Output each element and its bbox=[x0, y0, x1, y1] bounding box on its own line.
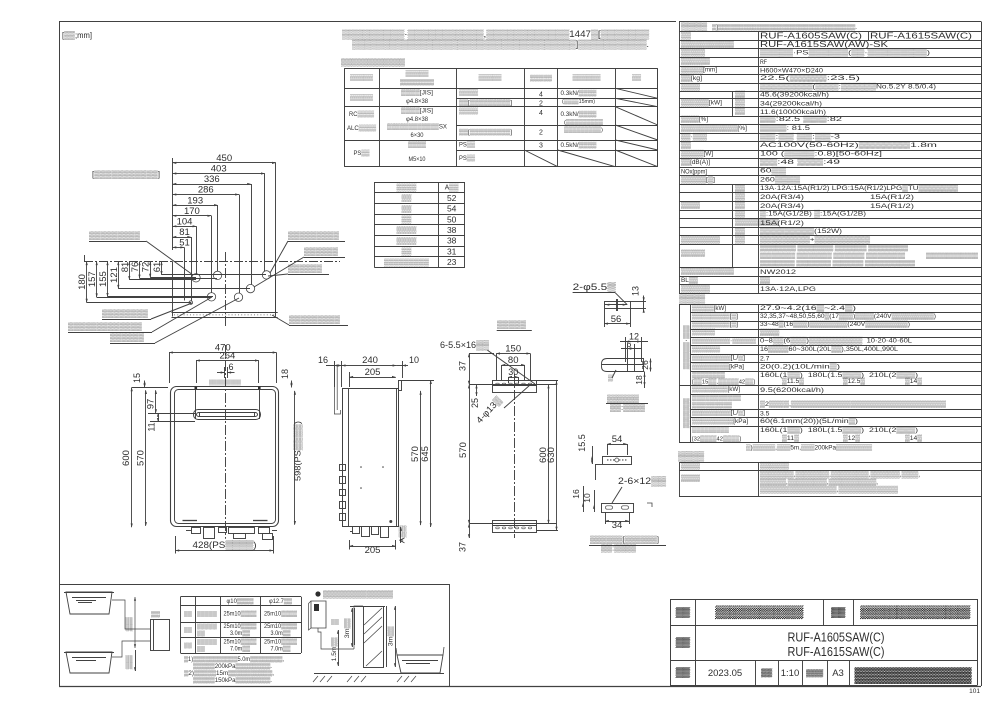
svg-text:3m▒▒: 3m▒▒ bbox=[388, 625, 395, 646]
svg-text:▒▒▒▒: ▒▒▒▒ bbox=[397, 226, 417, 234]
dim 450 bbox=[173, 162, 276, 164]
svg-text:▒▒▒▒▒: ▒▒▒▒▒ bbox=[406, 70, 429, 78]
svg-text:23: 23 bbox=[447, 257, 457, 267]
dim 205 side bottom bbox=[349, 546, 396, 548]
torii diagram: pipe run bbox=[318, 628, 354, 649]
dim 240 side top bbox=[342, 365, 397, 367]
svg-text:16: 16 bbox=[318, 355, 328, 365]
top view centerline bbox=[225, 252, 227, 327]
svg-text:▒▒▒▒▒▒▒▒,▒▒▒▒▒▒▒▒,▒▒▒▒▒▒▒▒▒,▒▒: ▒▒▒▒▒▒▒▒,▒▒▒▒▒▒▒▒,▒▒▒▒▒▒▒▒▒,▒▒▒▒▒▒▒,▒▒▒▒… bbox=[760, 471, 920, 479]
dim 157 vertical bbox=[96, 261, 98, 297]
dim 97 bbox=[155, 390, 157, 413]
front view exhaust slot bbox=[194, 410, 261, 420]
svg-text:▒▒▒▒▒▒: ▒▒▒▒▒▒ bbox=[681, 284, 710, 292]
top view unit body bbox=[172, 261, 174, 316]
svg-text:▒▒▒▒▒▒▒▒[L/▒]: ▒▒▒▒▒▒▒▒[L/▒] bbox=[692, 409, 745, 417]
dim 37 top left bbox=[469, 354, 471, 385]
svg-text:▒▒▒▒▒: ▒▒▒▒▒ bbox=[681, 249, 705, 257]
svg-text:▒▒▒▒: ▒▒▒▒ bbox=[760, 328, 779, 336]
svg-text:54: 54 bbox=[612, 434, 623, 445]
svg-text:▒▒▒▒▒▒▒▒[L/▒]: ▒▒▒▒▒▒▒▒[L/▒] bbox=[692, 354, 745, 362]
svg-text:[▒▒15▒▒,▒▒▒▒▒42▒▒]: [▒▒15▒▒,▒▒▒▒▒42▒▒] bbox=[692, 378, 755, 385]
svg-text:▒▒▒▒▒▒▒▒[kPa]: ▒▒▒▒▒▒▒▒[kPa] bbox=[692, 363, 744, 371]
svg-text:▒▒▒▒[JIS]: ▒▒▒▒[JIS] bbox=[401, 106, 433, 114]
svg-text:▒▒▒▒[%]: ▒▒▒▒[%] bbox=[681, 115, 708, 123]
svg-text:▒▒▒▒▒▒: ▒▒▒▒▒▒ bbox=[110, 333, 144, 342]
svg-text:▒▒▒▒▒200kPa▒▒▒▒▒▒▒▒.: ▒▒▒▒▒200kPa▒▒▒▒▒▒▒▒. bbox=[193, 663, 272, 670]
svg-text:▒▒: ▒▒ bbox=[735, 107, 745, 115]
dim 155 vertical bbox=[107, 261, 109, 297]
dim 121 vertical bbox=[118, 261, 120, 288]
top view unit outline (wall reference dash-dot line) bbox=[84, 261, 340, 263]
side view top bracket plate bbox=[398, 380, 432, 382]
svg-text:▒▒:▒▒ ▒▒:▒▒-3: ▒▒:▒▒ ▒▒:▒▒-3 bbox=[760, 133, 840, 141]
svg-text:2.7: 2.7 bbox=[760, 356, 770, 363]
svg-text:160L(1▒▒) 180L(1.5▒▒▒) 210L(: 160L(1▒▒) 180L(1.5▒▒▒) 210L(2▒▒▒) bbox=[760, 426, 918, 434]
svg-text:11: 11 bbox=[147, 422, 157, 431]
svg-text:27.9~4.2(16▒~2.4▒): 27.9~4.2(16▒~2.4▒) bbox=[760, 304, 856, 312]
dim 18 right small bbox=[291, 381, 293, 388]
svg-text:A▒▒: A▒▒ bbox=[445, 183, 459, 191]
dim 80 bbox=[502, 365, 525, 367]
svg-text:▒▒▒▒▒: ▒▒▒▒▒ bbox=[350, 74, 373, 82]
svg-text:▒▒▒▒: ▒▒▒▒ bbox=[459, 89, 478, 97]
front view body bbox=[171, 387, 279, 527]
svg-text:15A(R1/2): 15A(R1/2) bbox=[870, 203, 914, 210]
svg-text:▒▒▒▒▒[W]: ▒▒▒▒▒[W] bbox=[681, 150, 713, 158]
bracket-mid dim 54 bbox=[607, 444, 627, 446]
dim 600 bbox=[131, 388, 133, 528]
svg-text:▒▒▒▒▒: ▒▒▒▒▒ bbox=[197, 610, 217, 617]
svg-text:6: 6 bbox=[228, 362, 233, 372]
svg-text:598(PS▒▒▒▒): 598(PS▒▒▒▒) bbox=[293, 421, 303, 481]
svg-text:▒▒[▒▒▒▒▒▒▒▒▒]: ▒▒[▒▒▒▒▒▒▒▒▒] bbox=[459, 128, 512, 136]
svg-text:▒▒▒▒▒▒▒▒▒: ▒▒▒▒▒▒▒▒▒ bbox=[384, 258, 429, 266]
svg-text:60▒▒: 60▒▒ bbox=[760, 167, 786, 175]
svg-text:6×30: 6×30 bbox=[411, 132, 425, 139]
svg-text:▒▒▒▒▒: ▒▒▒▒▒ bbox=[530, 74, 553, 82]
svg-text:45.6(39200kcal/h): 45.6(39200kcal/h) bbox=[760, 92, 829, 99]
svg-text:▒▒: ▒▒ bbox=[735, 227, 745, 235]
torii diagram: bathtub bbox=[397, 655, 443, 673]
bracket-upper dim 26 bbox=[650, 359, 652, 372]
parts table grid bbox=[679, 462, 981, 464]
svg-text:▒▒▒▒▒▒: ▒▒▒▒▒▒ bbox=[288, 264, 322, 273]
svg-text:▒▒: ▒▒ bbox=[151, 611, 161, 618]
svg-text:570: 570 bbox=[135, 450, 146, 466]
dim 336 bbox=[173, 184, 252, 186]
svg-text:38: 38 bbox=[447, 236, 457, 246]
svg-text:▒▒▒▒: ▒▒▒▒ bbox=[681, 201, 700, 209]
svg-text:18: 18 bbox=[280, 369, 290, 379]
mounting hole top bracket strip bbox=[493, 381, 537, 393]
dim 72 vertical bbox=[150, 261, 152, 277]
svg-text:▒▒▒▒▒▒▒▒▒: ▒▒▒▒▒▒▒▒▒ bbox=[288, 231, 339, 240]
bracket-low body bbox=[602, 504, 634, 513]
svg-text:37: 37 bbox=[458, 542, 468, 552]
torii diagram: dim 3m inner-left bbox=[354, 608, 356, 645]
dim 150 bbox=[496, 353, 530, 355]
svg-text:▒1)▒▒▒▒▒▒▒▒▒▒▒5.0m▒▒▒▒▒▒▒▒,: ▒1)▒▒▒▒▒▒▒▒▒▒▒5.0m▒▒▒▒▒▒▒▒, bbox=[184, 656, 284, 663]
svg-text:▒▒▒▒▒▒▒▒[kW]: ▒▒▒▒▒▒▒▒[kW] bbox=[692, 385, 740, 393]
svg-text:26: 26 bbox=[640, 360, 650, 370]
dim 10 side top bbox=[396, 365, 408, 367]
svg-text:61: 61 bbox=[152, 262, 163, 273]
dim 570 left bbox=[469, 385, 471, 524]
dim 630 right bbox=[556, 381, 558, 531]
svg-text:▒▒: ▒▒ bbox=[735, 99, 745, 107]
svg-text:▒▒: ▒▒ bbox=[402, 205, 412, 213]
svg-text:18: 18 bbox=[634, 375, 644, 385]
svg-text:0.3kN/▒▒▒▒: 0.3kN/▒▒▒▒ bbox=[561, 89, 598, 97]
svg-text:▒2)▒▒▒▒▒15m▒▒▒▒▒▒▒▒▒▒,: ▒2)▒▒▒▒▒15m▒▒▒▒▒▒▒▒▒▒, bbox=[184, 670, 274, 677]
svg-text:▒▒·▒▒▒▒: ▒▒·▒▒▒▒ bbox=[683, 325, 691, 370]
torii diagram: dim 1.5m bbox=[338, 630, 340, 666]
svg-text:2023.05: 2023.05 bbox=[708, 668, 742, 679]
svg-text:31: 31 bbox=[447, 246, 457, 256]
svg-text:▒▒▒▒: 81.5: ▒▒▒▒: 81.5 bbox=[760, 124, 810, 132]
dim 205 side top bbox=[349, 377, 396, 379]
svg-text:▒▒▒▒▒▒▒▒▒▒▒▒▒▒▒: ▒▒▒▒▒▒▒▒▒▒▒▒▒▒▒ bbox=[926, 252, 979, 259]
svg-text:▒▒▒▒▒▒▒▒▒▒▒▒[%]: ▒▒▒▒▒▒▒▒▒▒▒▒[%] bbox=[681, 124, 747, 132]
side view small dots bbox=[360, 466, 362, 468]
piping diagram: label down bbox=[135, 650, 137, 671]
svg-text:▒▒▒▒▒▒: ▒▒▒▒▒▒ bbox=[573, 74, 601, 82]
svg-text:▒▒: ▒▒ bbox=[681, 141, 691, 149]
connection size table bbox=[375, 182, 465, 184]
svg-text:▒▒:82.5 ▒▒▒:82: ▒▒:82.5 ▒▒▒:82 bbox=[760, 115, 842, 123]
svg-text:240: 240 bbox=[362, 355, 378, 366]
svg-text:101: 101 bbox=[969, 688, 980, 695]
svg-text:▒▒[kg]: ▒▒[kg] bbox=[681, 74, 702, 82]
svg-text:M5×10: M5×10 bbox=[409, 156, 426, 163]
dim 30 bbox=[508, 377, 518, 379]
mounting hole slot center lines bbox=[469, 384, 557, 386]
svg-text:▒▒▒▒▒▒▒▒▒▒▒: ▒▒▒▒▒▒▒▒▒▒▒ bbox=[692, 394, 742, 402]
svg-text:φ4.8×38: φ4.8×38 bbox=[406, 98, 429, 105]
svg-text:▒▒: ▒▒ bbox=[760, 276, 770, 284]
svg-text:ALC▒▒▒▒: ALC▒▒▒▒ bbox=[347, 124, 376, 132]
dim 470 bbox=[169, 352, 277, 354]
bottom section divider bbox=[59, 584, 449, 586]
left dim connector lines bbox=[87, 302, 191, 304]
svg-text:[▒▒▒▒▒▒▒▒▒▒▒]: [▒▒▒▒▒▒▒▒▒▒▒] bbox=[92, 170, 160, 179]
svg-text:▒▒: ▒▒ bbox=[184, 642, 192, 649]
svg-text:286: 286 bbox=[198, 185, 214, 196]
svg-text:▒▒▒▒▒▒▒▒▒: ▒▒▒▒▒▒▒▒▒ bbox=[89, 231, 140, 240]
bracket-upper dim 6 bbox=[621, 348, 641, 350]
svg-text:▒▒▒▒▒▒▒▒▒▒▒▒▒: ▒▒▒▒▒▒▒▒▒▒▒▒▒ bbox=[323, 590, 394, 599]
svg-text:AC100V(50-60Hz)▒▒▒▒▒▒1.8m: AC100V(50-60Hz)▒▒▒▒▒▒1.8m bbox=[760, 141, 938, 149]
svg-text:▒▒:▒▒▒▒: ▒▒:▒▒▒▒ bbox=[610, 403, 646, 412]
svg-text:25m10▒▒▒▒: 25m10▒▒▒▒ bbox=[264, 610, 298, 617]
svg-text:▒▒▒▒▒▒▒▒▒▒▒▒▒: ▒▒▒▒▒▒▒▒▒▒▒▒▒ bbox=[68, 322, 142, 331]
svg-text:▒11.5▒: ▒11.5▒ bbox=[782, 377, 804, 385]
dim 193 bbox=[173, 205, 218, 207]
svg-text:121: 121 bbox=[109, 267, 120, 283]
svg-text:100 (▒▒▒▒:0.8)[50-60Hz]: 100 (▒▒▒▒:0.8)[50-60Hz] bbox=[760, 150, 882, 158]
svg-text:600: 600 bbox=[121, 450, 132, 466]
svg-text:13A·12A,LPG: 13A·12A,LPG bbox=[760, 286, 816, 293]
svg-text:▒▒▒▒▒▒▒▒·▒▒▒▒▒: ▒▒▒▒▒▒▒▒·▒▒▒▒▒ bbox=[692, 336, 756, 344]
svg-text:7.0m▒▒: 7.0m▒▒ bbox=[271, 645, 292, 652]
svg-text:▒▒▒▒▒▒▒▒▒ ▒▒▒▒▒▒▒▒▒ ▒▒▒▒▒▒▒▒ ▒: ▒▒▒▒▒▒▒▒▒ ▒▒▒▒▒▒▒▒▒ ▒▒▒▒▒▒▒▒ ▒▒▒▒▒▒▒▒▒▒ bbox=[760, 245, 909, 252]
svg-text:1:10: 1:10 bbox=[781, 668, 800, 679]
svg-text:▒▒▒▒▒▒: ▒▒▒▒▒▒ bbox=[681, 57, 710, 65]
svg-text:▒▒▒▒▒▒▒▒▒+▒▒▒▒▒▒▒▒▒▒: ▒▒▒▒▒▒▒▒▒+▒▒▒▒▒▒▒▒▒▒ bbox=[760, 235, 870, 243]
svg-text:▒▒▒▒▒: ▒▒▒▒▒ bbox=[692, 328, 715, 336]
front view top recess panel bbox=[195, 386, 197, 419]
svg-text:428(PS▒▒▒▒): 428(PS▒▒▒▒) bbox=[193, 540, 257, 551]
svg-text:▒▒: ▒▒ bbox=[735, 201, 745, 209]
dim A side bottom bbox=[400, 527, 402, 543]
svg-text:▒▒▒▒▒▒▒▒: ▒▒▒▒▒▒▒▒ bbox=[681, 235, 720, 243]
front view centerline bbox=[225, 345, 227, 539]
svg-text:▒:15A(G1/2B) ▒:15A(G1/2B): ▒:15A(G1/2B) ▒:15A(G1/2B) bbox=[760, 210, 866, 218]
svg-text:(▒▒▒▒15mm): (▒▒▒▒15mm) bbox=[562, 98, 595, 105]
svg-text:38: 38 bbox=[447, 225, 457, 235]
dim 76 vertical bbox=[139, 261, 141, 278]
svg-text:▒▒▒▒▒150kPa▒▒▒▒▒▒▒▒.: ▒▒▒▒▒150kPa▒▒▒▒▒▒▒▒. bbox=[193, 677, 272, 684]
svg-text:BL▒▒: BL▒▒ bbox=[681, 276, 698, 284]
dim 570 bbox=[145, 390, 147, 526]
svg-text:▒▒: ▒▒ bbox=[331, 618, 339, 625]
svg-text:▒▒▒▒▒▒[kW]: ▒▒▒▒▒▒[kW] bbox=[681, 99, 722, 107]
svg-text:3.5: 3.5 bbox=[760, 410, 770, 417]
svg-text:φ10▒▒▒▒: φ10▒▒▒▒ bbox=[227, 598, 255, 605]
svg-text:▒▒▒▒▒: ▒▒▒▒▒ bbox=[350, 94, 373, 102]
svg-text:▒▒▒▒▒: ▒▒▒▒▒ bbox=[683, 398, 691, 429]
svg-text:▒▒▒▒▒▒▒▒[▒]: ▒▒▒▒▒▒▒▒[▒] bbox=[692, 312, 738, 320]
bracket-mid body bbox=[603, 457, 632, 465]
svg-text:▒▒▒▒▒▒: ▒▒▒▒▒▒ bbox=[304, 247, 338, 256]
dim 81 vertical bbox=[129, 261, 131, 280]
svg-text:2: 2 bbox=[539, 130, 543, 137]
dim 170 bbox=[173, 215, 212, 217]
svg-text:▒▒: ▒▒ bbox=[681, 31, 691, 39]
front view feet bbox=[183, 520, 198, 522]
svg-text:▒▒▒▒▒: ▒▒▒▒▒ bbox=[197, 623, 217, 630]
svg-text:▒▒:48 ▒▒▒:49: ▒▒:48 ▒▒▒:49 bbox=[760, 158, 840, 166]
wall bracket small strip bbox=[605, 302, 631, 309]
svg-text:264: 264 bbox=[219, 351, 235, 362]
drawing sheet frame bbox=[59, 21, 676, 23]
svg-text:13: 13 bbox=[631, 286, 641, 296]
title block frame bbox=[670, 599, 977, 601]
svg-text:▒▒▒▒: ▒▒▒▒ bbox=[397, 183, 417, 191]
svg-text:97: 97 bbox=[145, 399, 156, 410]
dim 51 bbox=[173, 247, 185, 249]
bracket-upper dim 18 bbox=[644, 372, 646, 389]
svg-text:φ12.7▒▒: φ12.7▒▒ bbox=[269, 598, 293, 605]
svg-text:0.3kN/▒▒▒▒: 0.3kN/▒▒▒▒ bbox=[561, 110, 598, 118]
svg-text:170: 170 bbox=[184, 206, 200, 217]
svg-text:▒)▒▒▒▒▒,▒▒▒5m,▒▒▒200kPa▒▒▒▒▒▒▒: ▒)▒▒▒▒▒,▒▒▒5m,▒▒▒200kPa▒▒▒▒▒▒▒▒ bbox=[746, 444, 872, 452]
svg-text:▒14▒: ▒14▒ bbox=[905, 434, 922, 442]
bracket-upper dim 12 bbox=[620, 341, 648, 343]
svg-text:22.5(▒▒▒▒:23.5): 22.5(▒▒▒▒:23.5) bbox=[760, 74, 860, 82]
svg-text:▒▒: ▒▒ bbox=[125, 655, 133, 670]
svg-text:▒▒▒▒▒▒▒▒: ▒▒▒▒▒▒▒▒ bbox=[400, 79, 435, 86]
svg-text:▒▒[dB(A)]: ▒▒[dB(A)] bbox=[681, 158, 710, 166]
svg-text:15: 15 bbox=[132, 373, 142, 383]
svg-text:▒▒▒▒: ▒▒▒▒ bbox=[679, 293, 706, 304]
svg-text:205: 205 bbox=[365, 545, 381, 556]
svg-text:▒▒▒▒▒▒▒▒▒ ▒▒▒▒▒▒▒▒▒ ▒▒▒▒▒▒▒▒ ▒: ▒▒▒▒▒▒▒▒▒ ▒▒▒▒▒▒▒▒▒ ▒▒▒▒▒▒▒▒ ▒▒▒▒▒▒▒▒▒▒ bbox=[760, 252, 906, 259]
svg-text:▒11▒: ▒11▒ bbox=[782, 434, 799, 442]
svg-text:2-6×12▒▒: 2-6×12▒▒ bbox=[618, 476, 667, 487]
svg-text:▒▒▒▒▒▒▒▒▒▒▒▒: ▒▒▒▒▒▒▒▒▒▒▒▒ bbox=[341, 58, 406, 67]
torii diagram: dim 3m right bbox=[395, 606, 397, 667]
svg-text:37: 37 bbox=[458, 361, 468, 371]
svg-text:▒▒·▒▒▒: ▒▒·▒▒▒ bbox=[681, 133, 707, 141]
svg-text:▒▒: ▒▒ bbox=[735, 184, 745, 192]
svg-text:80: 80 bbox=[508, 355, 519, 366]
svg-text:32,35,37~48,50,55,60▒(17▒▒▒)▒▒: 32,35,37~48,50,55,60▒(17▒▒▒)▒▒▒▒(240V▒▒▒… bbox=[760, 312, 936, 320]
svg-text:▒14▒: ▒14▒ bbox=[905, 377, 922, 385]
svg-text:▒▒▒▒▒▒▒▒▒▒▒: ▒▒▒▒▒▒▒▒▒▒▒ bbox=[681, 267, 734, 275]
svg-text:15A(R1/2): 15A(R1/2) bbox=[760, 220, 804, 227]
dim 25 left bbox=[476, 385, 478, 396]
svg-text:▒12▒: ▒12▒ bbox=[843, 434, 860, 442]
svg-text:▒▒: ▒▒ bbox=[402, 248, 412, 256]
mounting hole view centerline bbox=[514, 374, 516, 538]
svg-text:3.0m▒▒: 3.0m▒▒ bbox=[271, 630, 292, 637]
svg-text:▒▒: ▒▒ bbox=[676, 607, 690, 618]
svg-text:2: 2 bbox=[539, 101, 543, 108]
svg-text:20A(R3/4): 20A(R3/4) bbox=[760, 194, 804, 201]
dim 104 bbox=[173, 226, 197, 228]
svg-text:104: 104 bbox=[177, 217, 193, 228]
svg-text:7.0m▒▒: 7.0m▒▒ bbox=[230, 645, 251, 652]
svg-text:▒▒▒▒▒▒: ▒▒▒▒▒▒ bbox=[715, 605, 804, 619]
svg-text:336: 336 bbox=[204, 174, 220, 185]
svg-text:[32▒▒▒▒42▒▒▒▒]: [32▒▒▒▒42▒▒▒▒] bbox=[692, 435, 741, 442]
svg-text:RC▒▒▒▒: RC▒▒▒▒ bbox=[349, 110, 374, 118]
side view bottom pipes bbox=[353, 527, 360, 534]
svg-text:▒▒▒▒▒▒: ▒▒▒▒▒▒ bbox=[607, 394, 640, 403]
svg-text:▒▒▒▒▒·PS▒▒▒▒▒▒(▒▒·▒▒▒▒▒▒▒▒▒): ▒▒▒▒▒·PS▒▒▒▒▒▒(▒▒·▒▒▒▒▒▒▒▒▒) bbox=[760, 48, 930, 56]
svg-text:150: 150 bbox=[505, 344, 521, 355]
svg-text:4: 4 bbox=[539, 110, 543, 117]
svg-text:30: 30 bbox=[508, 367, 518, 377]
svg-text:4: 4 bbox=[539, 92, 543, 99]
svg-text:NOx[ppm]: NOx[ppm] bbox=[681, 168, 707, 175]
front view bottom pipe stubs bbox=[192, 528, 201, 534]
svg-text:▒▒: ▒▒ bbox=[761, 668, 772, 677]
svg-text:3: 3 bbox=[539, 143, 543, 150]
dim 403 bbox=[173, 173, 265, 175]
svg-text:▒▒▒▒▒: ▒▒▒▒▒ bbox=[681, 48, 705, 56]
svg-text:0~8▒▒(6▒▒▒)▒▒▒▒▒▒▒▒▒▒ 10·20·4: 0~8▒▒(6▒▒▒)▒▒▒▒▒▒▒▒▒▒ 10·20·40·60L bbox=[760, 336, 912, 344]
svg-text:15A(R1/2): 15A(R1/2) bbox=[870, 194, 914, 201]
mounting hole bottom bracket strip bbox=[493, 521, 537, 533]
svg-text:▒▒: ▒▒ bbox=[735, 90, 745, 98]
svg-text:▒▒:▒▒▒▒: ▒▒:▒▒▒▒ bbox=[601, 544, 637, 553]
svg-text:▒: ▒ bbox=[608, 374, 613, 382]
svg-text:3m▒▒: 3m▒▒ bbox=[344, 617, 351, 638]
svg-text:▒▒: ▒▒ bbox=[735, 235, 745, 243]
dim 264 bbox=[196, 360, 259, 362]
svg-text:645: 645 bbox=[420, 446, 431, 462]
svg-text:▒▒▒▒: ▒▒▒▒ bbox=[678, 451, 705, 462]
spec table grid bbox=[679, 21, 981, 23]
svg-text:▒▒▒▒: ▒▒▒▒ bbox=[681, 462, 700, 470]
torii diagram: door/wall bbox=[350, 606, 385, 608]
svg-text:▒▒▒▒▒: ▒▒▒▒▒ bbox=[497, 320, 526, 329]
dim 16 side top bbox=[326, 365, 346, 367]
svg-text:▒▒: ▒▒ bbox=[632, 74, 641, 82]
svg-text:NW2012: NW2012 bbox=[760, 269, 796, 276]
dim 37 bottom left bbox=[469, 524, 471, 538]
svg-text:▒▒▒▒: ▒▒▒▒ bbox=[459, 107, 478, 115]
svg-text:403: 403 bbox=[211, 164, 227, 175]
svg-text:▒▒: ▒▒ bbox=[184, 610, 192, 617]
svg-text:▒▒▒▒▒▒: ▒▒▒▒▒▒ bbox=[760, 462, 789, 470]
svg-text:▒▒▒▒▒▒▒▒▒ ▒▒▒▒▒▒▒▒▒ ▒▒▒▒▒▒▒▒ ▒: ▒▒▒▒▒▒▒▒▒ ▒▒▒▒▒▒▒▒▒ ▒▒▒▒▒▒▒▒ ▒▒▒▒▒▒▒▒▒▒▒… bbox=[760, 260, 916, 267]
svg-text:▒▒▒▒▒▒▒▒▒: ▒▒▒▒▒▒▒▒▒ bbox=[860, 605, 971, 619]
svg-text:▒▒▒▒: ▒▒▒▒ bbox=[408, 140, 427, 148]
svg-text:34(29200kcal/h): 34(29200kcal/h) bbox=[760, 101, 822, 108]
svg-text:9.5(6200kcal/h): 9.5(6200kcal/h) bbox=[760, 387, 824, 394]
svg-text:205: 205 bbox=[365, 367, 381, 378]
svg-text:▒▒: ▒▒ bbox=[831, 607, 845, 618]
svg-text:193: 193 bbox=[187, 195, 203, 206]
svg-text:25: 25 bbox=[470, 398, 480, 408]
svg-text:2-φ5.5▒: 2-φ5.5▒ bbox=[573, 282, 616, 293]
title block row3 bbox=[695, 660, 697, 686]
svg-text:▒▒: ▒▒ bbox=[735, 192, 745, 200]
svg-text:▒▒▒▒▒: ▒▒▒▒▒ bbox=[197, 638, 217, 645]
svg-text:▒▒▒▒: ▒▒▒▒ bbox=[681, 21, 708, 32]
dim 645 side right bbox=[430, 380, 432, 527]
svg-text:25m10▒▒▒▒: 25m10▒▒▒▒ bbox=[224, 623, 258, 630]
svg-text:A3: A3 bbox=[832, 668, 844, 679]
side view left small bracket bbox=[334, 366, 340, 414]
torii diagram: ground line bbox=[314, 673, 444, 675]
svg-text:25m10▒▒▒▒: 25m10▒▒▒▒ bbox=[264, 638, 298, 645]
svg-text:33~48▒(16▒▒▒)▒▒▒▒▒▒▒▒(240V▒▒▒▒: 33~48▒(16▒▒▒)▒▒▒▒▒▒▒▒(240V▒▒▒▒▒▒▒▒▒) bbox=[760, 320, 910, 328]
svg-text:570: 570 bbox=[458, 442, 469, 458]
svg-text:13A·12A:15A(R1/2) LPG:15A(R1/2: 13A·12A:15A(R1/2) LPG:15A(R1/2)LPG▒TU▒▒▒… bbox=[760, 184, 958, 192]
dim 286 bbox=[173, 194, 240, 196]
bracket-low dim 34 bbox=[605, 521, 629, 523]
svg-text:51: 51 bbox=[179, 238, 190, 249]
svg-text:72: 72 bbox=[141, 262, 152, 273]
piping diagram: upper tub bbox=[66, 592, 112, 614]
svg-text:630: 630 bbox=[546, 447, 557, 463]
svg-text:▒2▒▒▒▒,▒▒▒▒▒▒▒▒▒▒▒▒▒▒▒▒▒▒▒▒▒▒▒: ▒2▒▒▒▒,▒▒▒▒▒▒▒▒▒▒▒▒▒▒▒▒▒▒▒▒▒▒▒▒▒▒▒▒▒▒▒ bbox=[760, 400, 946, 408]
svg-text:▒▒▒▒▒▒▒▒▒▒▒▒▒▒▒▒▒▒▒▒▒▒▒▒▒▒▒▒▒▒: ▒▒▒▒▒▒▒▒▒▒▒▒▒▒▒▒▒▒▒▒▒▒▒▒▒▒▒▒▒▒▒▒▒▒▒▒]▒▒▒… bbox=[352, 39, 649, 50]
piping diagram: pipes bbox=[134, 597, 136, 648]
svg-text:▒▒▒▒: ▒▒▒▒ bbox=[806, 670, 823, 678]
svg-text:▒]▒▒▒▒▒▒▒▒▒▒▒▒▒▒▒▒▒▒▒▒▒▒▒▒▒▒▒▒: ▒]▒▒▒▒▒▒▒▒▒▒▒▒▒▒▒▒▒▒▒▒▒▒▒▒▒▒▒▒▒▒▒▒. bbox=[712, 24, 857, 31]
svg-text:▒▒▒▒▒▒▒▒▒: ▒▒▒▒▒▒▒▒▒ bbox=[289, 315, 340, 324]
svg-text:10: 10 bbox=[409, 355, 419, 365]
dim 61 vertical bbox=[161, 261, 163, 275]
svg-text:H600×W470×D240: H600×W470×D240 bbox=[760, 67, 823, 74]
piping diagram: lower tub bbox=[66, 652, 112, 673]
svg-text:16▒▒▒▒60~300L(20L▒▒),350L,400L: 16▒▒▒▒60~300L(20L▒▒),350L,400L,990L bbox=[760, 345, 898, 353]
svg-text:0.5kN/▒▒▒▒: 0.5kN/▒▒▒▒ bbox=[561, 141, 598, 149]
svg-text:▒▒▒▒[JIS]: ▒▒▒▒[JIS] bbox=[401, 88, 433, 96]
svg-text:▒▒▒▒▒▒▒▒: ▒▒▒▒▒▒▒▒ bbox=[102, 309, 148, 318]
front view panel corner bolts bbox=[195, 387, 198, 390]
svg-text:157: 157 bbox=[87, 271, 98, 287]
dim 56 bracket bbox=[604, 323, 630, 325]
svg-text:▒▒▒▒▒[▒]: ▒▒▒▒▒[▒] bbox=[681, 176, 715, 184]
dim 15 left small bbox=[144, 381, 146, 388]
